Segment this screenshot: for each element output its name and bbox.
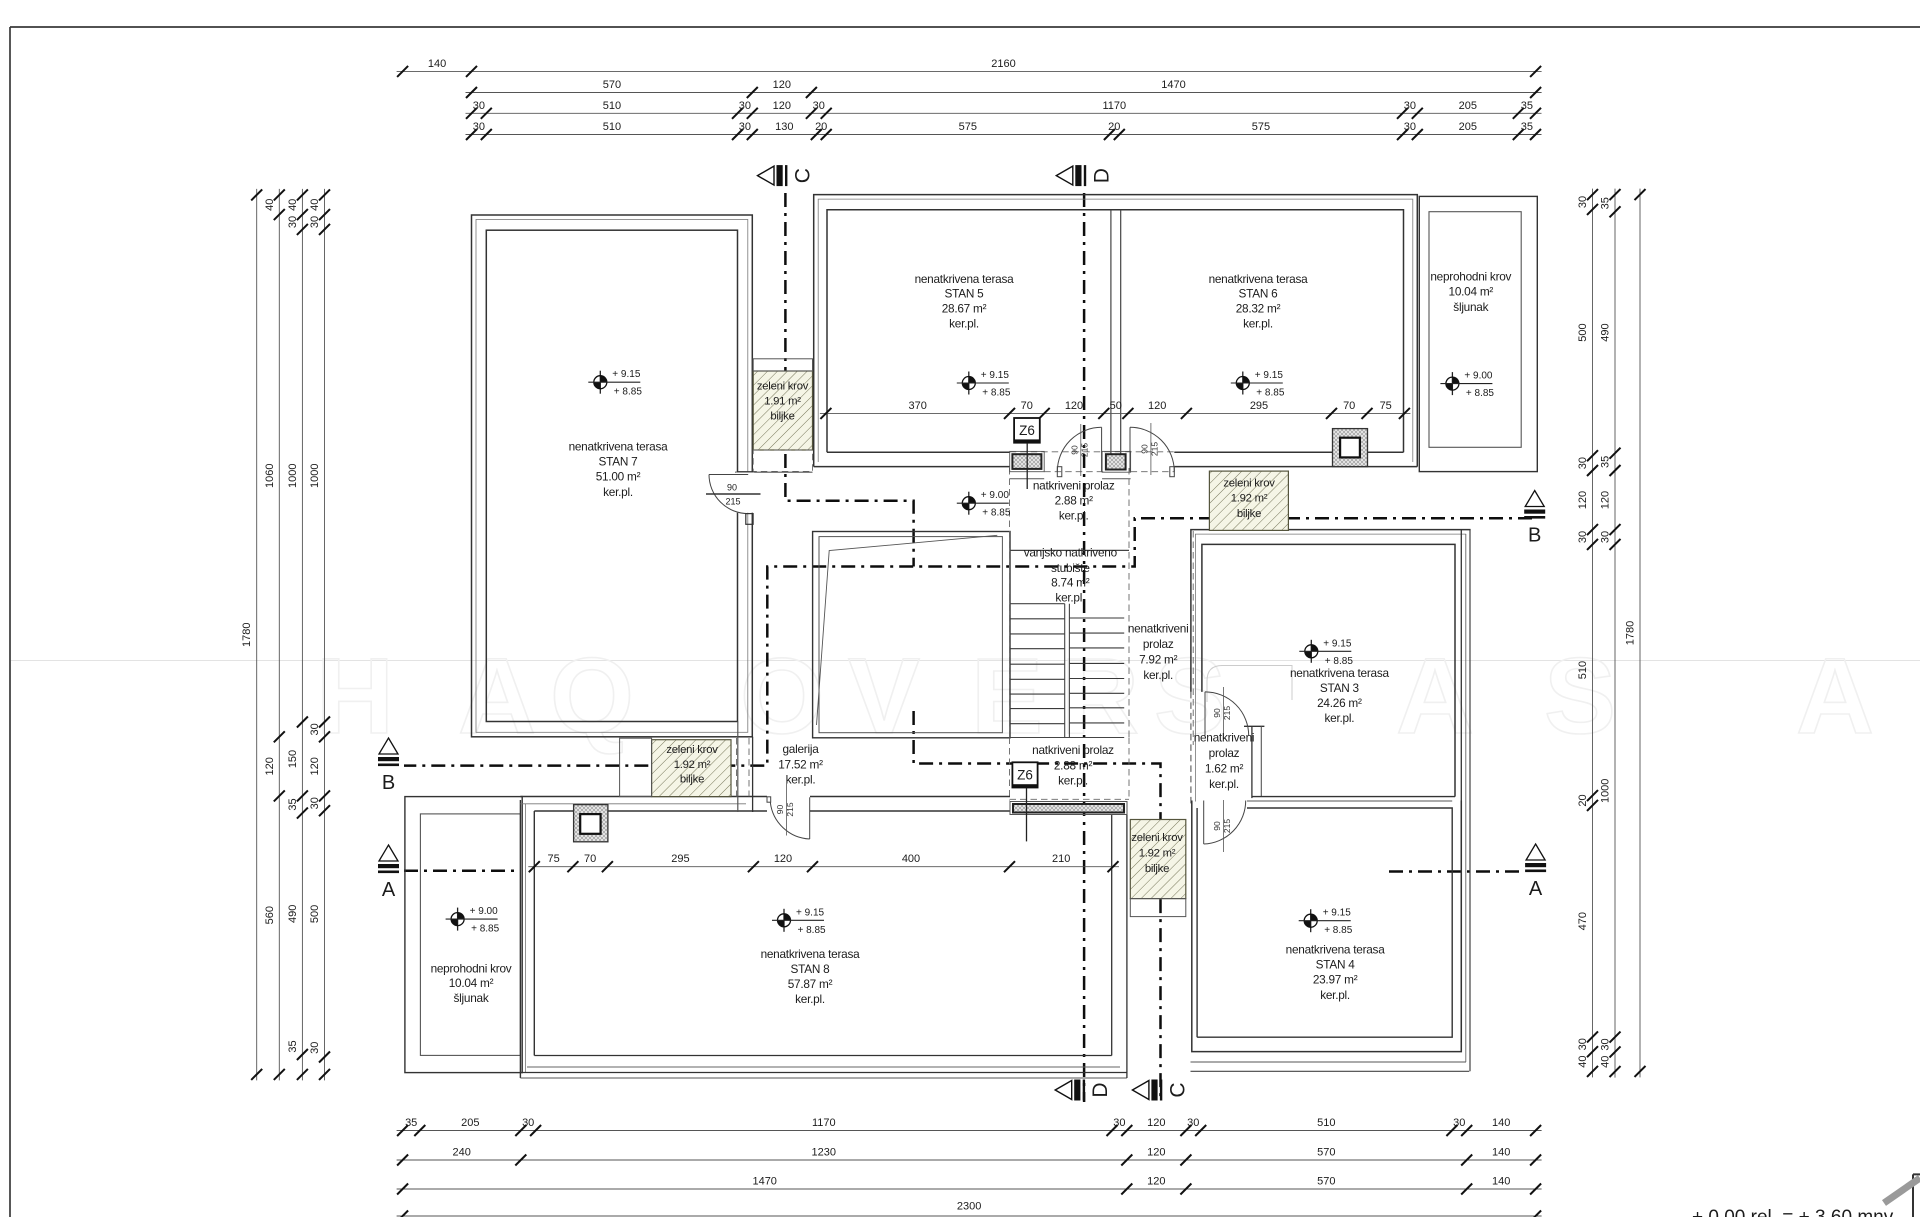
door STAN 3 upper bbox=[1205, 692, 1249, 736]
threshold T1 bbox=[1010, 451, 1044, 471]
svg-text:490: 490 bbox=[287, 905, 299, 923]
section marker C bottom bbox=[1132, 1080, 1189, 1101]
svg-text:20: 20 bbox=[815, 121, 827, 133]
door STAN 3 lower bbox=[1204, 801, 1246, 845]
left dimension chain 3 bbox=[301, 189, 303, 1081]
section line D (vertical) bbox=[1083, 193, 1086, 1102]
svg-text:D: D bbox=[1090, 168, 1113, 183]
svg-text:ker.pl.: ker.pl. bbox=[1243, 317, 1273, 331]
svg-text:40: 40 bbox=[1600, 1056, 1612, 1068]
svg-text:vanjsko natkriveno: vanjsko natkriveno bbox=[1024, 546, 1118, 560]
section marker C top bbox=[758, 165, 815, 186]
svg-text:STAN 4: STAN 4 bbox=[1316, 958, 1356, 972]
bottom dimension chain row 3 bbox=[397, 1188, 1542, 1190]
faint under-floor outline near STAN3 door bbox=[1207, 666, 1292, 703]
svg-text:ker.pl.: ker.pl. bbox=[1143, 668, 1173, 682]
svg-text:šljunak: šljunak bbox=[454, 991, 489, 1005]
svg-text:nenatkrivena terasa: nenatkrivena terasa bbox=[915, 272, 1015, 286]
svg-text:natkriveni prolaz: natkriveni prolaz bbox=[1033, 479, 1115, 493]
svg-text:1000: 1000 bbox=[1600, 779, 1612, 803]
right dimension chain total 1780 bbox=[1639, 189, 1641, 1078]
chimney in STAN 6 bbox=[1333, 429, 1368, 467]
svg-text:+ 9.15: + 9.15 bbox=[981, 370, 1010, 381]
left dimension chain 4 bbox=[324, 189, 326, 1081]
chimney in STAN 8 bbox=[574, 805, 608, 842]
roof block neprohodni krov (bottom left) bbox=[405, 797, 522, 1073]
svg-text:nenatkrivena terasa: nenatkrivena terasa bbox=[761, 947, 861, 961]
room STAN 7 terrace outer walls bbox=[472, 215, 753, 737]
svg-text:Z6: Z6 bbox=[1017, 768, 1033, 783]
svg-text:30: 30 bbox=[309, 1042, 321, 1054]
svg-text:1.92 m²: 1.92 m² bbox=[1231, 493, 1268, 505]
svg-text:30: 30 bbox=[1577, 196, 1589, 208]
svg-text:510: 510 bbox=[603, 100, 621, 112]
section line C (stepped vertical) bbox=[785, 193, 913, 567]
svg-text:30: 30 bbox=[1577, 1038, 1589, 1050]
svg-text:120: 120 bbox=[773, 100, 791, 112]
svg-text:70: 70 bbox=[1021, 400, 1033, 412]
door jamb marks top block bbox=[1057, 467, 1062, 477]
svg-text:8.74 m²: 8.74 m² bbox=[1051, 576, 1090, 590]
STAN 3 prolaz niche walls bbox=[1244, 725, 1264, 727]
svg-text:28.32 m²: 28.32 m² bbox=[1236, 302, 1281, 316]
svg-text:510: 510 bbox=[1317, 1117, 1335, 1129]
svg-text:295: 295 bbox=[1250, 400, 1268, 412]
interior dims STAN 8 row bbox=[528, 866, 1119, 868]
svg-text:120: 120 bbox=[774, 853, 792, 865]
svg-text:28.67 m²: 28.67 m² bbox=[942, 302, 987, 316]
svg-text:stubište: stubište bbox=[1051, 561, 1090, 575]
dashed line across lower prolaz bbox=[1010, 798, 1130, 800]
svg-text:S: S bbox=[1544, 635, 1616, 756]
svg-text:+ 8.85: + 8.85 bbox=[471, 924, 500, 935]
svg-text:205: 205 bbox=[1459, 121, 1477, 133]
svg-text:120: 120 bbox=[1147, 1176, 1165, 1188]
svg-text:40: 40 bbox=[309, 199, 321, 211]
elevation mark STAN 4 bbox=[1304, 909, 1317, 932]
svg-text:140: 140 bbox=[1492, 1176, 1510, 1188]
door STAN 5 (bottom wall) bbox=[1101, 427, 1103, 471]
svg-text:40: 40 bbox=[287, 199, 299, 211]
svg-text:120: 120 bbox=[773, 79, 791, 91]
wall between STAN 5 and STAN 6 bbox=[1110, 210, 1112, 454]
svg-text:1.91 m²: 1.91 m² bbox=[764, 396, 801, 408]
STAN 8 right wall bbox=[1111, 815, 1113, 1056]
top dimension chain row 4 bbox=[466, 134, 1542, 136]
top dimension chain row 1: 140 | 2160 bbox=[397, 70, 1542, 72]
roof block neprohodni krov (top right) bbox=[1419, 196, 1537, 471]
svg-text:215: 215 bbox=[725, 497, 740, 507]
zeleni krov 1 (right of STAN 7) bbox=[753, 371, 812, 450]
room STAN 8 walls bbox=[519, 800, 521, 1078]
svg-text:1780: 1780 bbox=[1625, 621, 1637, 645]
svg-text:30: 30 bbox=[1404, 100, 1416, 112]
svg-text:D: D bbox=[1089, 1082, 1112, 1097]
svg-text:A: A bbox=[1396, 635, 1474, 756]
svg-text:A: A bbox=[1796, 635, 1874, 756]
svg-text:57.87 m²: 57.87 m² bbox=[788, 977, 833, 991]
svg-text:natkriveni prolaz: natkriveni prolaz bbox=[1032, 743, 1114, 757]
svg-text:2160: 2160 bbox=[991, 58, 1015, 70]
svg-text:240: 240 bbox=[453, 1147, 471, 1159]
svg-text:ker.pl.: ker.pl. bbox=[786, 773, 816, 787]
svg-text:ker.pl.: ker.pl. bbox=[1325, 711, 1355, 725]
svg-text:prolaz: prolaz bbox=[1209, 746, 1240, 760]
svg-text:75: 75 bbox=[547, 853, 559, 865]
svg-text:35: 35 bbox=[1521, 100, 1533, 112]
Z6 box top bbox=[1014, 418, 1040, 443]
right dimension chain 1 bbox=[1592, 189, 1594, 1078]
svg-text:A: A bbox=[1529, 878, 1543, 900]
svg-text:295: 295 bbox=[671, 853, 689, 865]
svg-text:STAN 3: STAN 3 bbox=[1320, 681, 1360, 695]
svg-text:C: C bbox=[792, 168, 815, 183]
svg-text:C: C bbox=[1166, 1082, 1189, 1097]
STAN 8 bottom wall lines bbox=[534, 1055, 1111, 1057]
faint sheet fold line bbox=[11, 660, 1920, 662]
svg-text:70: 70 bbox=[584, 853, 596, 865]
dashed wall line across door openings (top block) bbox=[1010, 451, 1175, 453]
svg-text:23.97 m²: 23.97 m² bbox=[1313, 973, 1358, 987]
svg-text:neprohodni krov: neprohodni krov bbox=[431, 962, 512, 976]
svg-text:+ 9.15: + 9.15 bbox=[796, 907, 825, 918]
zeleni krov 4 (bottom middle) bbox=[1130, 820, 1186, 899]
svg-text:510: 510 bbox=[1577, 661, 1589, 679]
section marker D bottom bbox=[1055, 1080, 1112, 1101]
svg-text:zeleni krov: zeleni krov bbox=[1223, 477, 1275, 489]
svg-text:1170: 1170 bbox=[812, 1117, 836, 1129]
svg-text:560: 560 bbox=[264, 906, 276, 924]
svg-text:ker.pl.: ker.pl. bbox=[1320, 988, 1350, 1002]
svg-text:nenatkriveni: nenatkriveni bbox=[1128, 622, 1189, 636]
svg-text:zeleni krov: zeleni krov bbox=[757, 380, 809, 392]
stair stringers bbox=[1064, 604, 1066, 738]
stairs bbox=[1010, 549, 1130, 551]
svg-text:nenatkrivena terasa: nenatkrivena terasa bbox=[569, 439, 669, 453]
svg-text:40: 40 bbox=[1577, 1055, 1589, 1067]
svg-text:90: 90 bbox=[1069, 445, 1079, 455]
elevation mark STAN 6 bbox=[1236, 372, 1249, 395]
svg-text:+ 8.85: + 8.85 bbox=[982, 388, 1011, 399]
svg-text:1170: 1170 bbox=[1102, 100, 1126, 112]
elevation mark roof TR bbox=[1446, 372, 1459, 395]
svg-text:2.88 m²: 2.88 m² bbox=[1055, 494, 1094, 508]
room STAN 3 outer walls bbox=[1191, 530, 1471, 692]
svg-text:biljke: biljke bbox=[680, 774, 704, 786]
svg-text:30: 30 bbox=[522, 1117, 534, 1129]
svg-text:nenatkrivena terasa: nenatkrivena terasa bbox=[1290, 666, 1390, 680]
svg-text:+ 9.00: + 9.00 bbox=[470, 906, 499, 917]
svg-text:30: 30 bbox=[1577, 457, 1589, 469]
svg-text:120: 120 bbox=[1148, 400, 1166, 412]
svg-text:1780: 1780 bbox=[241, 622, 253, 646]
elevation mark STAN 3 bbox=[1305, 640, 1318, 663]
svg-text:51.00 m²: 51.00 m² bbox=[596, 470, 641, 484]
svg-text:50: 50 bbox=[1110, 400, 1122, 412]
svg-text:150: 150 bbox=[287, 750, 299, 768]
svg-text:70: 70 bbox=[1343, 400, 1355, 412]
svg-text:120: 120 bbox=[1600, 491, 1612, 509]
svg-text:STAN 5: STAN 5 bbox=[945, 287, 985, 301]
section line A right part bbox=[1389, 870, 1521, 873]
svg-text:2.88 m²: 2.88 m² bbox=[1054, 759, 1093, 773]
svg-text:A: A bbox=[458, 635, 536, 756]
svg-text:205: 205 bbox=[461, 1117, 479, 1129]
svg-text:galerija: galerija bbox=[782, 742, 819, 756]
svg-text:215: 215 bbox=[1079, 443, 1089, 457]
svg-text:90: 90 bbox=[775, 805, 785, 815]
svg-text:30: 30 bbox=[309, 723, 321, 735]
svg-text:35: 35 bbox=[1600, 456, 1612, 468]
STAN7 right wall lower continuation bbox=[737, 722, 739, 813]
right dimension chain 2 bbox=[1614, 189, 1616, 1078]
elevation mark roof BL bbox=[451, 908, 464, 931]
threshold T3 (long, bottom) bbox=[1010, 802, 1127, 815]
svg-text:30: 30 bbox=[1577, 531, 1589, 543]
bottom dimension chain row 2 bbox=[397, 1159, 1542, 1161]
svg-text:1230: 1230 bbox=[812, 1147, 836, 1159]
STAN 4 outer apron lines bbox=[1191, 1061, 1467, 1063]
elevation mark STAN 7 bbox=[594, 371, 607, 394]
svg-text:120: 120 bbox=[1577, 491, 1589, 509]
Z6 box bottom bbox=[1012, 762, 1037, 787]
svg-text:A: A bbox=[382, 879, 396, 901]
svg-text:STAN 8: STAN 8 bbox=[791, 962, 831, 976]
svg-text:130: 130 bbox=[775, 121, 793, 133]
svg-text:biljke: biljke bbox=[1237, 508, 1261, 520]
svg-text:10.04 m²: 10.04 m² bbox=[449, 976, 494, 990]
svg-text:ker.pl.: ker.pl. bbox=[949, 317, 979, 331]
svg-text:+ 9.15: + 9.15 bbox=[612, 369, 641, 380]
svg-text:215: 215 bbox=[785, 802, 795, 816]
svg-text:zeleni krov: zeleni krov bbox=[1131, 832, 1183, 844]
room STAN 4 walls bbox=[1192, 801, 1462, 1052]
svg-text:120: 120 bbox=[309, 757, 321, 775]
svg-text:90: 90 bbox=[727, 483, 737, 493]
svg-text:570: 570 bbox=[1317, 1176, 1335, 1188]
svg-text:30: 30 bbox=[1113, 1117, 1125, 1129]
svg-text:nenatkriveni: nenatkriveni bbox=[1194, 731, 1255, 745]
svg-text:1.92 m²: 1.92 m² bbox=[1139, 848, 1176, 860]
svg-text:šljunak: šljunak bbox=[1453, 300, 1488, 314]
svg-text:575: 575 bbox=[1252, 121, 1270, 133]
svg-text:+ 9.00: + 9.00 bbox=[981, 490, 1010, 501]
svg-text:510: 510 bbox=[603, 121, 621, 133]
svg-text:prolaz: prolaz bbox=[1143, 637, 1174, 651]
svg-text:ker.pl.: ker.pl. bbox=[795, 992, 825, 1006]
svg-text:35: 35 bbox=[287, 1040, 299, 1052]
svg-text:30: 30 bbox=[473, 121, 485, 133]
svg-text:30: 30 bbox=[1600, 531, 1612, 543]
svg-text:120: 120 bbox=[1065, 400, 1083, 412]
zeleni krov 3 (left of galerija) bbox=[652, 740, 731, 797]
svg-text:B: B bbox=[1528, 525, 1541, 547]
svg-text:215: 215 bbox=[1149, 442, 1159, 456]
svg-text:35: 35 bbox=[1521, 121, 1533, 133]
door STAN 7 (right wall) bbox=[736, 473, 755, 513]
svg-text:570: 570 bbox=[1317, 1147, 1335, 1159]
section marker A right bbox=[1525, 844, 1546, 900]
svg-text:575: 575 bbox=[959, 121, 977, 133]
svg-text:30: 30 bbox=[1600, 1038, 1612, 1050]
svg-text:1000: 1000 bbox=[309, 463, 321, 487]
svg-text:120: 120 bbox=[1147, 1117, 1165, 1129]
svg-text:2300: 2300 bbox=[957, 1201, 981, 1213]
svg-text:+ 8.85: + 8.85 bbox=[1324, 925, 1353, 936]
section line B (stepped horizontal) bbox=[404, 518, 1532, 765]
interior dims STAN5/6 bbox=[820, 412, 1411, 414]
svg-text:90: 90 bbox=[1212, 708, 1222, 718]
svg-text:1.92 m²: 1.92 m² bbox=[674, 759, 711, 771]
galerija box walls bbox=[813, 532, 1010, 738]
svg-text:90: 90 bbox=[1212, 821, 1222, 831]
svg-text:+ 0.00 rel. = + 3.60 mnv: + 0.00 rel. = + 3.60 mnv bbox=[1692, 1207, 1894, 1217]
svg-text:ker.pl.: ker.pl. bbox=[1059, 508, 1089, 522]
svg-text:ker.pl.: ker.pl. bbox=[1209, 777, 1239, 791]
nenatkriveni prolaz dashed edge bbox=[1192, 531, 1194, 745]
top dimension chain row 2: 570 120 1470 bbox=[466, 92, 1542, 94]
threshold T2 bbox=[1102, 451, 1131, 472]
svg-text:B: B bbox=[382, 772, 395, 794]
svg-text:+ 9.15: + 9.15 bbox=[1323, 638, 1352, 649]
svg-text:nenatkrivena terasa: nenatkrivena terasa bbox=[1209, 272, 1309, 286]
svg-text:30: 30 bbox=[1404, 121, 1416, 133]
svg-text:ker.pl.: ker.pl. bbox=[1055, 591, 1085, 605]
svg-text:ker.pl.: ker.pl. bbox=[1058, 773, 1088, 787]
svg-text:20: 20 bbox=[1577, 794, 1589, 806]
svg-text:30: 30 bbox=[1453, 1117, 1465, 1129]
svg-text:17.52 m²: 17.52 m² bbox=[778, 757, 823, 771]
svg-text:7.92 m²: 7.92 m² bbox=[1139, 653, 1178, 667]
svg-text:20: 20 bbox=[1108, 121, 1120, 133]
svg-text:STAN 6: STAN 6 bbox=[1239, 287, 1279, 301]
svg-text:30: 30 bbox=[739, 121, 751, 133]
svg-text:400: 400 bbox=[902, 853, 920, 865]
svg-text:+ 8.85: + 8.85 bbox=[982, 508, 1011, 519]
section marker A left bbox=[378, 845, 399, 901]
section marker B left bbox=[378, 738, 399, 794]
svg-text:35: 35 bbox=[287, 798, 299, 810]
svg-text:370: 370 bbox=[909, 400, 927, 412]
svg-text:zeleni krov: zeleni krov bbox=[666, 744, 718, 756]
section marker B right bbox=[1524, 491, 1545, 547]
hidden dashed wall below galerija (left strip) bbox=[736, 738, 738, 797]
svg-text:210: 210 bbox=[1052, 853, 1070, 865]
svg-text:+ 9.00: + 9.00 bbox=[1464, 371, 1493, 382]
svg-text:215: 215 bbox=[1222, 819, 1232, 833]
svg-text:ker.pl.: ker.pl. bbox=[603, 485, 633, 499]
wall lines below thresholds bbox=[1010, 478, 1044, 480]
svg-text:30: 30 bbox=[739, 100, 751, 112]
left dimension chain 2 bbox=[278, 189, 280, 1081]
svg-text:30: 30 bbox=[473, 100, 485, 112]
svg-text:+ 9.15: + 9.15 bbox=[1255, 370, 1284, 381]
elevation mark passage bbox=[962, 492, 975, 515]
bottom dimension chain row 4: 2300 bbox=[397, 1215, 1542, 1217]
svg-text:205: 205 bbox=[1459, 100, 1477, 112]
svg-text:90: 90 bbox=[1139, 444, 1149, 454]
svg-text:+ 8.85: + 8.85 bbox=[798, 925, 827, 936]
stair well dashed edges bbox=[1009, 468, 1011, 738]
svg-text:470: 470 bbox=[1577, 912, 1589, 930]
svg-text:biljke: biljke bbox=[1145, 863, 1169, 875]
corner title box bbox=[1913, 1174, 1920, 1217]
STAN3/STAN4 party wall band bbox=[1252, 796, 1455, 798]
svg-text:Z6: Z6 bbox=[1019, 423, 1035, 438]
svg-text:+ 9.15: + 9.15 bbox=[1323, 908, 1352, 919]
svg-text:10.04 m²: 10.04 m² bbox=[1449, 285, 1494, 299]
svg-text:120: 120 bbox=[264, 757, 276, 775]
svg-text:140: 140 bbox=[428, 58, 446, 70]
svg-text:570: 570 bbox=[603, 79, 621, 91]
section marker D top bbox=[1056, 165, 1113, 186]
elevation mark STAN 8 bbox=[778, 909, 791, 932]
svg-text:neprohodni krov: neprohodni krov bbox=[1430, 269, 1511, 283]
svg-text:500: 500 bbox=[309, 905, 321, 923]
svg-text:1470: 1470 bbox=[1161, 79, 1185, 91]
section line A left part bbox=[404, 870, 519, 873]
page frame border bbox=[10, 26, 1920, 28]
svg-text:1000: 1000 bbox=[287, 463, 299, 487]
top dimension chain row 3 bbox=[466, 112, 1542, 114]
svg-text:140: 140 bbox=[1492, 1147, 1510, 1159]
svg-text:35: 35 bbox=[1600, 197, 1612, 209]
svg-text:+ 8.85: + 8.85 bbox=[1256, 388, 1285, 399]
left dimension chain total 1780 bbox=[256, 189, 258, 1081]
svg-text:30: 30 bbox=[309, 216, 321, 228]
svg-text:75: 75 bbox=[1380, 400, 1392, 412]
svg-text:140: 140 bbox=[1492, 1117, 1510, 1129]
elevation mark STAN 5 bbox=[962, 372, 975, 395]
svg-text:1470: 1470 bbox=[752, 1176, 776, 1188]
svg-text:30: 30 bbox=[1187, 1117, 1199, 1129]
svg-text:30: 30 bbox=[813, 100, 825, 112]
svg-text:35: 35 bbox=[405, 1117, 417, 1129]
svg-text:500: 500 bbox=[1577, 323, 1589, 341]
STAN 3 inner walls bbox=[1202, 544, 1455, 796]
svg-text:+ 8.85: + 8.85 bbox=[1466, 388, 1495, 399]
svg-text:215: 215 bbox=[1222, 706, 1232, 720]
svg-text:biljke: biljke bbox=[770, 411, 794, 423]
galerija void skew lines bbox=[817, 535, 998, 725]
door STAN 6 (bottom wall) bbox=[1129, 427, 1131, 471]
door galerija to STAN 8 bbox=[809, 797, 811, 839]
svg-text:STAN 7: STAN 7 bbox=[599, 455, 638, 469]
svg-text:H: H bbox=[316, 635, 394, 756]
room block STAN 5 / STAN 6 outer walls bbox=[814, 195, 1418, 467]
svg-text:40: 40 bbox=[264, 199, 276, 211]
svg-text:120: 120 bbox=[1147, 1147, 1165, 1159]
svg-text:30: 30 bbox=[309, 797, 321, 809]
svg-text:1.62 m²: 1.62 m² bbox=[1205, 762, 1244, 776]
svg-text:490: 490 bbox=[1600, 323, 1612, 341]
bottom wall segments of STAN5/6 block bbox=[814, 466, 1010, 468]
svg-text:1060: 1060 bbox=[264, 463, 276, 487]
svg-text:nenatkrivena terasa: nenatkrivena terasa bbox=[1286, 943, 1386, 957]
svg-text:30: 30 bbox=[287, 216, 299, 228]
svg-text:+ 8.85: + 8.85 bbox=[614, 387, 643, 398]
zeleni krov 2 (below STAN 6) bbox=[1209, 471, 1288, 530]
svg-text:24.26 m²: 24.26 m² bbox=[1317, 696, 1362, 710]
bottom dimension chain row 1 bbox=[397, 1130, 1542, 1132]
right wall band STAN3/4 bbox=[1460, 530, 1462, 1052]
